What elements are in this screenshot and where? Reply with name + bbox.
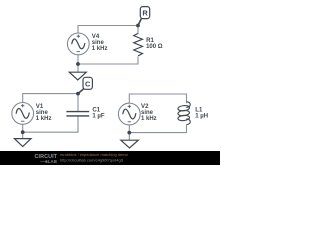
svg-text:1 kHz: 1 kHz [92, 46, 108, 52]
voltage source V2 [118, 103, 140, 125]
svg-text:1 µF: 1 µF [92, 114, 104, 120]
resistor R1 [134, 33, 143, 55]
capacitor C1 [66, 112, 89, 116]
svg-text:1 kHz: 1 kHz [141, 116, 157, 122]
svg-text:1 kHz: 1 kHz [36, 116, 52, 122]
wires right circuit [129, 94, 186, 103]
ground (top circuit) [69, 72, 86, 80]
wire top circuit: R1 bottom rail [78, 57, 138, 65]
svg-text:R1: R1 [146, 37, 154, 44]
svg-text:mrobbins : impedance matching: mrobbins : impedance matching demo [60, 152, 129, 157]
watermark bar [0, 151, 220, 165]
voltage source V1 [12, 103, 34, 125]
svg-text:100 Ω: 100 Ω [146, 44, 163, 50]
wire R1 leads [137, 26, 139, 35]
junction dot below V2 [127, 131, 131, 135]
svg-text:R: R [142, 9, 148, 18]
svg-text:http://circuitlab.com/c4g96t7q: http://circuitlab.com/c4g96t7qxd4g3 [60, 157, 124, 162]
wire top circuit: V4 top to R1 top [78, 26, 138, 33]
ground (right circuit) [121, 140, 138, 148]
svg-text:C: C [85, 79, 91, 88]
svg-text:1 µH: 1 µH [195, 114, 208, 120]
junction dot at C flag [76, 92, 80, 96]
svg-text:L1: L1 [195, 106, 203, 113]
wires left circuit [23, 94, 78, 103]
node flag C [78, 77, 92, 93]
junction dot below V1 [21, 130, 25, 134]
svg-text:V4: V4 [92, 33, 100, 40]
svg-text:C1: C1 [92, 107, 100, 114]
ground (left circuit) [14, 139, 31, 147]
svg-text:V2: V2 [141, 103, 149, 110]
svg-text:V1: V1 [36, 103, 44, 110]
node flag R [138, 7, 150, 26]
voltage source V4 [67, 33, 89, 55]
inductor L1 [178, 102, 191, 125]
wire V4 bottom to ground [77, 55, 79, 72]
svg-text:—■LAB: —■LAB [41, 159, 58, 164]
junction dot below V4 [76, 62, 80, 66]
junction dot at R1 top [136, 24, 140, 28]
